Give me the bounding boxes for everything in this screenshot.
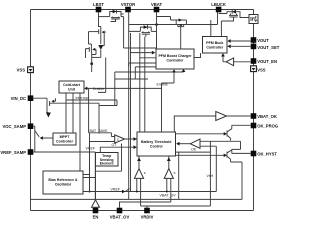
battery switch diode D2 bbox=[144, 25, 148, 29]
wire x89.5 down bbox=[89, 133, 91, 192]
svg-text:VRDIV: VRDIV bbox=[141, 215, 154, 220]
pad OK_HYST bbox=[251, 151, 257, 157]
svg-text:VIN_DC: VIN_DC bbox=[11, 96, 26, 101]
wire rectifier right to VSTOR bbox=[121, 14, 124, 17]
ground under M6 bbox=[46, 113, 51, 118]
svg-text:Cold-start: Cold-start bbox=[63, 83, 81, 87]
wire M2 source tie bbox=[92, 56, 101, 58]
svg-text:OT: OT bbox=[112, 143, 118, 147]
comparator A3 OK bbox=[190, 139, 200, 148]
wire boost to buck connector bbox=[194, 53, 201, 58]
bias box output stubs bbox=[83, 175, 95, 178]
wire x123.6 down to box top line bbox=[124, 17, 156, 48]
comparator A4 VBAT_OV bbox=[134, 169, 143, 179]
wire interrupt line lower bbox=[52, 103, 99, 133]
pad VOUT_SET bbox=[251, 44, 257, 50]
pad VRDIV bbox=[144, 208, 150, 214]
comparator A5 VBAT_UV bbox=[164, 169, 173, 179]
svg-text:Controller: Controller bbox=[56, 140, 74, 144]
wire M2 body tie bbox=[101, 32, 104, 46]
wire EN long line bbox=[31, 198, 243, 200]
svg-text:MPPT: MPPT bbox=[60, 135, 71, 139]
pad VBAT_OV bbox=[117, 208, 123, 214]
svg-text:LBST: LBST bbox=[93, 2, 104, 7]
svg-text:VREF: VREF bbox=[111, 188, 121, 192]
pad VIN_DC bbox=[28, 95, 34, 101]
wire M4 gate long down to threshold block bbox=[144, 37, 146, 132]
wires OK comparator inputs bbox=[200, 141, 241, 206]
wire A5 output up bbox=[168, 156, 170, 169]
svg-text:s: s bbox=[117, 138, 119, 142]
pad VOUT bbox=[251, 37, 257, 43]
pad OK_PROG bbox=[251, 123, 257, 129]
wire y79 branch bbox=[115, 72, 148, 106]
wire x105.7 down bbox=[98, 57, 106, 92]
buck PMOS M5 bbox=[221, 14, 238, 22]
svg-text:Interrupt: Interrupt bbox=[76, 96, 89, 100]
svg-text:Oscillator: Oscillator bbox=[55, 183, 72, 187]
svg-text:VOUT: VOUT bbox=[257, 38, 269, 43]
wire x89.5 vref to comparator minus bbox=[90, 142, 115, 192]
pad VBAT_OK bbox=[251, 113, 257, 119]
NMOS M2 under LBST bbox=[99, 27, 101, 30]
buffer A6 VOUT_EN bbox=[226, 58, 234, 66]
wire enable from cold-start to boost bbox=[87, 72, 174, 88]
svg-text:Controller: Controller bbox=[167, 59, 185, 63]
chip outline right border bbox=[253, 10, 255, 211]
EN input buffer triangle bbox=[92, 200, 100, 208]
rectifier diode loop U-T1 bbox=[110, 12, 121, 17]
wire buck gate down to controller bbox=[220, 21, 222, 37]
output FET box on right border bbox=[249, 15, 258, 24]
junction dots on VREF line bbox=[136, 191, 138, 193]
wire VBAT_OV up and right bbox=[120, 202, 171, 208]
ground arrow under M2 bbox=[98, 45, 103, 50]
wire VOUT_SET into buck controller bbox=[231, 45, 251, 47]
pad EN bbox=[93, 208, 99, 214]
buck diode D3 bbox=[232, 10, 236, 14]
svg-text:VOUT_EN: VOUT_EN bbox=[257, 59, 277, 64]
wire M3 gate down to boost controller bbox=[180, 27, 182, 49]
svg-text:VSS: VSS bbox=[257, 68, 266, 73]
wire x130.5 long down with arrow branch into box bbox=[131, 33, 152, 192]
wire x178.7 down to EN line bbox=[178, 152, 180, 199]
svg-text:Battery Threshold: Battery Threshold bbox=[141, 140, 171, 144]
wire y57.8 into box from x139.8 bbox=[140, 57, 156, 59]
box battery threshold control bbox=[137, 132, 176, 156]
wire LBST to rectifier left bbox=[99, 16, 110, 18]
pad LBST bbox=[96, 7, 102, 13]
pad VSTOR bbox=[125, 7, 131, 13]
pad VBAT bbox=[154, 7, 160, 13]
pad VOUT_EN bbox=[251, 58, 257, 64]
box cold-start unit bbox=[59, 81, 84, 93]
svg-text:OK: OK bbox=[191, 148, 197, 152]
comparator A2 VBAT_OK buffer bbox=[216, 112, 227, 121]
svg-text:PFM Buck: PFM Buck bbox=[206, 41, 223, 45]
PMOS M3 on rail bbox=[176, 20, 186, 25]
pad VREF_SAMP bbox=[28, 149, 34, 155]
chip outline bottom border bbox=[31, 210, 254, 212]
buck switch loop at LBUCK bbox=[219, 12, 240, 14]
pin VSS left ground symbol bbox=[28, 67, 34, 73]
wire x242 from EN line up bbox=[241, 162, 243, 199]
wire enable down to battery threshold bbox=[161, 83, 163, 132]
svg-text:VOC_SAMP: VOC_SAMP bbox=[2, 124, 26, 129]
NMOS M6 at VIN_DC bbox=[47, 100, 52, 112]
svg-text:VBAT_UV: VBAT_UV bbox=[160, 194, 177, 198]
wire x88.6 from enable down bbox=[88, 88, 90, 132]
wire OK comparator output into BTC bbox=[179, 143, 190, 145]
wire BAT_SAVE to comparator bbox=[89, 133, 112, 137]
svg-text:Bias Reference &: Bias Reference & bbox=[48, 178, 78, 182]
svg-text:Vref: Vref bbox=[207, 174, 213, 178]
svg-text:VOUT_SET: VOUT_SET bbox=[257, 45, 280, 50]
transistor T2 OK_HYST bbox=[227, 150, 242, 162]
comparator A1 BAT_SAVE bbox=[115, 135, 125, 143]
rectifier diode D1 bbox=[113, 10, 117, 14]
pin VSS right ground symbol bbox=[251, 66, 257, 72]
wires A4 inputs down bbox=[137, 178, 141, 206]
svg-text:VBAT: VBAT bbox=[151, 2, 163, 7]
wire OK_HYST line bbox=[232, 149, 251, 153]
wire x174.3 VBAT_OK feed bbox=[174, 116, 216, 132]
svg-text:Unit: Unit bbox=[68, 88, 76, 92]
wires A5 inputs down bbox=[167, 178, 171, 202]
wire VIN_DC to NMOS bbox=[33, 98, 47, 100]
svg-text:s: s bbox=[144, 171, 146, 175]
svg-text:VBAT_OK: VBAT_OK bbox=[257, 114, 277, 119]
wire VBAT down bbox=[156, 12, 158, 49]
box bias reference and oscillator bbox=[43, 171, 83, 194]
svg-text:VSS: VSS bbox=[17, 68, 26, 73]
chip outline left border bbox=[30, 10, 32, 211]
wire VRDIV up and right bbox=[141, 206, 211, 208]
battery switch PMOS M4 bbox=[142, 31, 151, 36]
svg-text:OK_PROG: OK_PROG bbox=[257, 124, 278, 129]
wire VBAT sense long down bbox=[156, 37, 158, 49]
svg-text:Control: Control bbox=[150, 145, 163, 149]
svg-text:PFM Boost Charger: PFM Boost Charger bbox=[158, 54, 192, 58]
svg-text:Controller: Controller bbox=[206, 46, 224, 50]
wire OT from temp sensor bbox=[100, 147, 133, 152]
wires cold-start down to MPPT bbox=[66, 93, 73, 133]
wire VOUT into buck controller bbox=[231, 40, 251, 42]
box temp sensing element bbox=[96, 153, 119, 167]
wire y72 to boost box arrow bbox=[115, 71, 184, 74]
wire buck box top stub bbox=[210, 20, 212, 37]
transistor T1 OK_PROG bbox=[227, 125, 232, 140]
svg-text:VBAT_OV: VBAT_OV bbox=[110, 215, 130, 220]
transistor Q2 left of M2 bbox=[89, 32, 92, 47]
pad VOC_SAMP bbox=[28, 123, 34, 129]
wire interrupt line upper bbox=[66, 100, 117, 106]
wire VOC branch down to VREF_SAMP line bbox=[34, 131, 36, 153]
box PFM buck controller bbox=[203, 37, 228, 54]
wire x80 down to bias box bbox=[79, 93, 81, 171]
wire buck loop to output FET box bbox=[240, 14, 249, 18]
svg-text:Enable: Enable bbox=[157, 83, 168, 87]
box MPPT controller bbox=[53, 133, 76, 145]
svg-text:VSTOR: VSTOR bbox=[121, 2, 135, 7]
rail VSTOR to LBUCK bbox=[129, 12, 218, 24]
wire A4 output up bbox=[138, 156, 140, 169]
wire y66.9 into box from x135.3 bbox=[135, 67, 156, 79]
wire M3 gate to VBAT bbox=[157, 17, 177, 21]
wire LBST down bbox=[98, 12, 100, 27]
junction dot Q2 source bbox=[90, 62, 93, 65]
pad LBUCK bbox=[216, 7, 222, 13]
wire VOC_SAMP sample switch bbox=[33, 126, 39, 137]
wire OK_PROG line bbox=[232, 124, 251, 126]
wire VREF main line bbox=[83, 191, 216, 193]
svg-text:Element: Element bbox=[100, 162, 115, 166]
junction VBAT rail bbox=[155, 23, 158, 26]
wire VREF_SAMP right bbox=[33, 151, 95, 153]
wire x95.3 down from VREF line bbox=[95, 144, 121, 200]
svg-text:s: s bbox=[174, 171, 176, 175]
svg-text:VREF: VREF bbox=[86, 147, 96, 151]
chip outline top border bbox=[31, 9, 254, 11]
svg-text:VREF_SAMP: VREF_SAMP bbox=[0, 150, 26, 155]
svg-text:EN: EN bbox=[93, 215, 99, 220]
wires into battery threshold top bbox=[139, 33, 141, 132]
wire VSTOR into box and long down bbox=[129, 63, 156, 199]
svg-text:LBUCK: LBUCK bbox=[211, 2, 226, 7]
svg-text:Enable: Enable bbox=[93, 87, 104, 91]
svg-text:OK_HYST: OK_HYST bbox=[257, 152, 277, 157]
battery switch loop bbox=[129, 27, 157, 31]
wire VSTOR down bbox=[128, 12, 130, 66]
rectifier PMOS M1 bbox=[111, 17, 121, 22]
wire EN buffer up bbox=[95, 152, 97, 200]
wire VOUT_EN to buffer bbox=[234, 61, 251, 63]
box PFM boost charger controller bbox=[156, 49, 194, 69]
